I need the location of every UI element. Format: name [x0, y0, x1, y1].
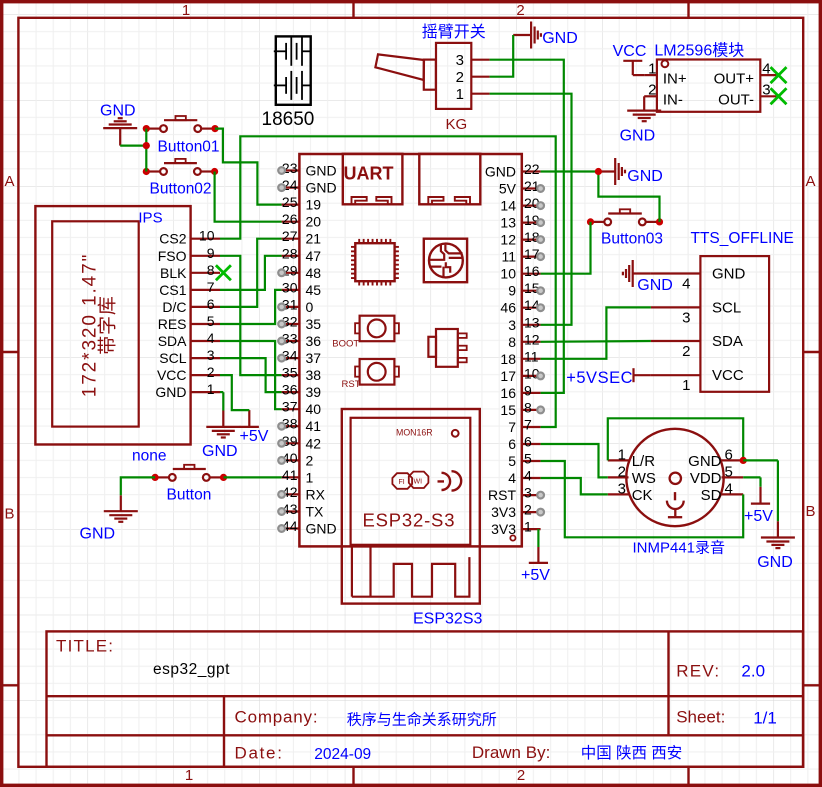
svg-text:8: 8: [524, 399, 532, 415]
svg-text:42: 42: [306, 435, 322, 451]
svg-text:9: 9: [524, 382, 532, 398]
U1 WiFi logo arcs: [438, 473, 451, 490]
svg-text:Company:: Company:: [235, 708, 319, 727]
U1 pin 14 (46) right: [522, 307, 541, 309]
svg-text:1: 1: [182, 2, 190, 19]
U1 pin 25 (19) left: [282, 204, 300, 206]
svg-text:45: 45: [306, 282, 322, 298]
svg-text:OUT-: OUT-: [718, 92, 754, 109]
svg-text:VCC: VCC: [613, 43, 647, 60]
ground symbol below INMP441: [777, 460, 779, 521]
svg-text:SDA: SDA: [158, 333, 187, 349]
svg-text:35: 35: [306, 316, 322, 332]
svg-text:25: 25: [282, 194, 298, 210]
U1 ESP32-S3 sub-module outline: [342, 409, 480, 604]
svg-text:TTS_OFFLINE: TTS_OFFLINE: [691, 230, 794, 247]
svg-text:3: 3: [508, 317, 516, 333]
U1 pin 37 (40) left: [282, 408, 300, 410]
U1 pin 4 (4) right: [522, 477, 541, 479]
U1 pin 20 (14) right: [522, 205, 541, 207]
svg-text:CS1: CS1: [159, 282, 186, 298]
svg-text:IN-: IN-: [663, 92, 683, 109]
IPS pin 9 (FSO): [191, 255, 220, 257]
svg-text:SDA: SDA: [712, 333, 743, 350]
svg-text:1: 1: [682, 377, 690, 394]
svg-text:L/R: L/R: [632, 453, 656, 470]
U1 pin 9 (16) right: [522, 392, 541, 394]
svg-text:1: 1: [648, 61, 656, 78]
wire Button02 to U1 pin26: [215, 172, 282, 222]
svg-text:11: 11: [524, 348, 539, 364]
IPS pin 2 (VCC): [191, 374, 220, 376]
svg-text:D/C: D/C: [162, 299, 186, 315]
U1 pin 17 (11) right: [522, 256, 541, 258]
U1 logo square: [424, 239, 467, 283]
wire IPS CS2 to U1 pin7: [220, 136, 556, 427]
ground symbol at TTS GND pin: [633, 272, 651, 274]
svg-text:46: 46: [500, 300, 516, 316]
IPS pin 1 (GND): [191, 391, 220, 393]
svg-text:6: 6: [725, 446, 733, 463]
U1 WiFi logo FI octagon: [392, 473, 412, 489]
svg-text:6: 6: [207, 296, 215, 312]
svg-text:GND: GND: [202, 443, 238, 460]
ESP32 module U1 body: [299, 154, 521, 546]
svg-text:16: 16: [500, 385, 516, 401]
U1 BOOT button: [360, 316, 395, 342]
svg-text:MON16R: MON16R: [396, 427, 433, 437]
U1 pin 21 (5V) right: [522, 187, 541, 189]
svg-text:3: 3: [682, 309, 690, 326]
svg-text:18650: 18650: [262, 109, 315, 130]
svg-text:GND: GND: [155, 384, 186, 400]
ground symbol at bottom Button: [120, 495, 122, 511]
U1 pin1 indicator circle: [510, 535, 515, 540]
svg-text:VDD: VDD: [690, 470, 722, 487]
U1 pin 40 (2) left: [282, 459, 300, 461]
svg-text:17: 17: [500, 368, 516, 384]
svg-text:7: 7: [508, 419, 516, 435]
U1 pin 16 (10) right: [522, 273, 541, 275]
svg-text:TX: TX: [306, 504, 325, 520]
svg-text:Drawn By:: Drawn By:: [472, 743, 550, 762]
KG pin 1: [471, 93, 489, 95]
svg-text:9: 9: [508, 283, 516, 299]
LM2596 pin 3 OUT-: [760, 95, 776, 97]
U1 pin 1 (3V3) right: [522, 528, 541, 530]
push button Button02: [146, 170, 160, 172]
svg-text:47: 47: [306, 248, 322, 264]
svg-text:5: 5: [508, 453, 516, 469]
svg-text:37: 37: [282, 399, 298, 415]
svg-text:4: 4: [524, 468, 532, 484]
zone tick marks: [352, 2, 354, 18]
INMP441 pin 5 (VDD): [722, 476, 744, 478]
svg-text:3: 3: [524, 485, 532, 501]
svg-text:ESP32S3: ESP32S3: [413, 611, 482, 628]
U1 pin 2 (3V3) right: [522, 511, 541, 513]
wire IPS D/C to U1 pin27: [220, 239, 282, 307]
svg-text:GND: GND: [306, 521, 337, 537]
title block column divider right: [667, 631, 669, 735]
svg-text:VCC: VCC: [157, 367, 187, 383]
svg-text:中国 陕西 西安: 中国 陕西 西安: [581, 744, 683, 762]
svg-text:2024-09: 2024-09: [314, 746, 371, 763]
svg-text:SCL: SCL: [712, 299, 741, 316]
battery BT1 18650: [276, 36, 311, 104]
IPS pin 6 (D/C): [191, 306, 220, 308]
wire U1 pin11 to TTS SCL: [541, 307, 651, 358]
+5VSEC power flag at TTS VCC: [632, 368, 634, 382]
svg-text:FSO: FSO: [158, 248, 187, 264]
U1 pin 15 (9) right: [522, 290, 541, 292]
svg-text:VCC: VCC: [712, 367, 744, 384]
svg-text:36: 36: [306, 333, 322, 349]
no-connect X on OUT+: [771, 67, 787, 83]
+5V power flag at INMP441 VDD: [759, 477, 761, 486]
svg-text:20: 20: [306, 214, 322, 230]
svg-text:4: 4: [682, 276, 690, 293]
svg-text:4: 4: [725, 480, 733, 497]
wire IPS SDA to U1 pin37: [220, 341, 282, 409]
U1 pin 6 (6) right: [522, 443, 541, 445]
U1 pin 28 (47) left: [282, 255, 300, 257]
U1 pin 43 (TX) left: [282, 510, 300, 512]
U1 pin 38 (41) left: [282, 425, 300, 427]
svg-text:TITLE:: TITLE:: [56, 636, 114, 655]
TTS pin 1 (VCC): [651, 374, 701, 376]
title block row divider 2: [47, 734, 804, 736]
U1 WiFi logo WI octagon: [409, 472, 429, 488]
svg-text:21: 21: [306, 231, 322, 247]
U1 RST button: [360, 359, 395, 385]
VCC power flag at LM2596 IN+: [623, 60, 642, 62]
IPS pin 7 (CS1): [191, 289, 220, 291]
svg-text:2: 2: [618, 463, 626, 480]
wire IPS VCC to +5V: [220, 375, 249, 410]
svg-text:2: 2: [207, 364, 215, 380]
svg-text:Sheet:: Sheet:: [676, 708, 725, 727]
title block column divider left: [223, 696, 225, 767]
svg-text:Date:: Date:: [235, 744, 284, 763]
svg-text:Button02: Button02: [150, 181, 212, 198]
svg-text:10: 10: [500, 266, 516, 282]
svg-text:22: 22: [524, 161, 540, 177]
svg-text:A: A: [4, 173, 14, 190]
svg-text:BOOT: BOOT: [332, 338, 359, 349]
svg-text:7: 7: [524, 417, 532, 433]
U1 pin 26 (20) left: [282, 221, 300, 223]
svg-text:GND: GND: [637, 277, 673, 294]
svg-text:36: 36: [282, 382, 298, 398]
wire IPS CS1 to U1 pin28: [220, 256, 282, 290]
svg-text:Button: Button: [167, 487, 212, 504]
wire U1 pin4 to INMP441 CK: [541, 478, 608, 494]
svg-text:CS2: CS2: [159, 231, 186, 247]
INMP441 pin 3 (CK): [608, 493, 629, 495]
title block row divider 1: [47, 695, 804, 697]
U1 pin 23 (GND) left: [282, 169, 300, 171]
wire bottom Button right to U1 pin41: [224, 476, 282, 478]
KG pin 3: [471, 59, 489, 61]
svg-text:38: 38: [306, 367, 322, 383]
svg-text:REV:: REV:: [676, 662, 720, 681]
svg-text:2: 2: [524, 502, 532, 518]
svg-text:6: 6: [508, 436, 516, 452]
KG lever: [375, 54, 424, 80]
svg-text:6: 6: [524, 434, 532, 450]
svg-text:2: 2: [517, 767, 525, 784]
IPS pin 3 (SCL): [191, 357, 220, 359]
svg-text:4: 4: [762, 61, 770, 78]
svg-text:LM2596模块: LM2596模块: [654, 41, 744, 59]
wire bottom Button left to ground: [121, 477, 155, 495]
svg-text:11: 11: [501, 249, 516, 265]
ground symbol right of KG switch: [513, 34, 531, 36]
svg-text:4: 4: [508, 470, 516, 486]
LM2596 pin1 indicator circle: [662, 60, 669, 67]
U1 pin 33 (36) left: [282, 340, 300, 342]
svg-text:A: A: [805, 173, 815, 190]
svg-text:2: 2: [648, 82, 656, 99]
svg-text:GND: GND: [306, 163, 337, 179]
svg-text:41: 41: [306, 418, 322, 434]
+5V power flag at ESP32 pin1: [537, 529, 539, 547]
svg-text:+5V: +5V: [240, 428, 269, 445]
svg-text:2: 2: [682, 343, 690, 360]
U1 pin 41 (1) left: [282, 476, 300, 478]
TTS pin 4 (GND): [651, 272, 701, 274]
svg-text:2.0: 2.0: [741, 662, 765, 681]
U1 QFN chip drawing: [355, 243, 394, 281]
svg-text:37: 37: [306, 350, 322, 366]
svg-text:+5VSEC: +5VSEC: [566, 369, 633, 387]
wire INMP441 GND to ground symbol: [743, 459, 778, 461]
svg-text:esp32_gpt: esp32_gpt: [153, 661, 230, 678]
U1 pin 10 (17) right: [522, 375, 541, 377]
svg-text:10: 10: [199, 228, 215, 244]
svg-text:B: B: [4, 506, 14, 523]
svg-text:CK: CK: [632, 487, 653, 504]
svg-text:RST: RST: [488, 487, 516, 503]
U1 pin 32 (35) left: [282, 323, 300, 325]
svg-text:16: 16: [524, 263, 540, 279]
U1 pin 34 (37) left: [282, 357, 300, 359]
LM2596 pin 1 IN+: [644, 74, 657, 76]
svg-text:8: 8: [508, 334, 516, 350]
U1 pin 19 (13) right: [522, 222, 541, 224]
U1 UART connector J1: [343, 154, 403, 205]
U1 pin 35 (38) left: [282, 374, 300, 376]
U1 SOT-23 part: [436, 329, 458, 367]
svg-text:BLK: BLK: [160, 265, 187, 281]
U1 pin 13 (3) right: [522, 324, 541, 326]
U1 pin 7 (7) right: [522, 426, 541, 428]
svg-text:26: 26: [282, 211, 298, 227]
svg-text:GND: GND: [100, 102, 136, 119]
svg-text:OUT+: OUT+: [714, 71, 755, 88]
INMP441 microphone body circle: [626, 429, 723, 526]
U1 pin 27 (21) left: [282, 238, 300, 240]
TTS pin 2 (SDA): [651, 340, 701, 342]
svg-text:1: 1: [185, 767, 193, 784]
svg-text:FI: FI: [399, 479, 405, 486]
wire IPS FSO to U1 pin35: [220, 256, 282, 375]
svg-text:GND: GND: [688, 453, 722, 470]
svg-text:Button01: Button01: [158, 139, 220, 156]
push button Button01: [146, 128, 160, 130]
svg-text:12: 12: [524, 331, 540, 347]
U1 pin 42 (RX) left: [282, 493, 300, 495]
IPS display module body: [35, 206, 190, 444]
svg-text:GND: GND: [80, 526, 116, 543]
U1 pin 12 (8) right: [522, 341, 541, 343]
U1 pin 44 (GND) left: [282, 527, 300, 529]
svg-text:7: 7: [207, 279, 215, 295]
svg-text:3: 3: [762, 82, 770, 99]
wire INMP441 VDD to +5V: [743, 476, 760, 478]
svg-text:8: 8: [207, 262, 215, 278]
wire IPS RES to U1 pin30: [220, 290, 282, 324]
INMP441 pin 6 (GND): [722, 459, 744, 461]
svg-text:GND: GND: [542, 30, 578, 47]
svg-text:1: 1: [618, 446, 626, 463]
U1 pin 3 (RST) right: [522, 494, 541, 496]
svg-text:GND: GND: [627, 168, 663, 185]
svg-text:秩序与生命关系研究所: 秩序与生命关系研究所: [347, 711, 497, 729]
svg-text:INMP441录音: INMP441录音: [633, 540, 726, 557]
svg-text:40: 40: [306, 401, 322, 417]
svg-text:RST: RST: [342, 379, 361, 390]
U1 pin 11 (18) right: [522, 358, 541, 360]
IPS pin 8 (BLK): [191, 272, 220, 274]
svg-text:带字库: 带字库: [97, 295, 119, 354]
svg-text:Button03: Button03: [601, 231, 663, 248]
wire GND to Button01/02 left: [120, 145, 146, 147]
push button Button: [155, 476, 169, 478]
svg-text:2: 2: [456, 69, 464, 86]
svg-text:+5V: +5V: [744, 508, 773, 525]
wire KG pin3 to U1 pin9: [490, 60, 564, 393]
U1 pin 31 (0) left: [282, 306, 300, 308]
INMP441 pin 4 (SD): [722, 493, 744, 495]
svg-text:GND: GND: [485, 164, 516, 180]
U1 pin 24 (GND) left: [282, 187, 300, 189]
svg-text:41: 41: [282, 467, 298, 483]
svg-text:12: 12: [500, 232, 516, 248]
svg-text:SCL: SCL: [159, 350, 186, 366]
U1 pin 18 (12) right: [522, 239, 541, 241]
wire KG pin1 to U1 pin13: [490, 94, 572, 325]
push button Button03: [591, 221, 605, 223]
U1 sub-module pin1 circle: [452, 430, 459, 437]
U1 pin 8 (15) right: [522, 409, 541, 411]
svg-text:RX: RX: [306, 486, 326, 502]
svg-text:18: 18: [500, 351, 516, 367]
IPS pin 5 (RES): [191, 323, 220, 325]
wire U1 pin12 to TTS SDA: [541, 340, 651, 343]
IPS pin 4 (SDA): [191, 340, 220, 342]
U1 pin 39 (42) left: [282, 442, 300, 444]
svg-text:B: B: [805, 503, 815, 520]
svg-text:19: 19: [306, 197, 322, 213]
+5V power flag below IPS VCC: [248, 410, 250, 427]
svg-text:+5V: +5V: [521, 567, 550, 584]
wire INMP441 L/R to GND loop: [608, 418, 743, 460]
wire Button01 to U1 pin25: [215, 129, 282, 205]
svg-text:GND: GND: [757, 554, 793, 571]
U1 pin 30 (45) left: [282, 289, 300, 291]
svg-text:30: 30: [282, 279, 298, 295]
KG pin 2: [471, 76, 489, 78]
svg-text:IN+: IN+: [663, 71, 687, 88]
svg-text:none: none: [132, 448, 166, 465]
U1 pin 36 (39) left: [282, 391, 300, 393]
INMP441 pin 1 (L/R): [608, 459, 629, 461]
svg-text:WS: WS: [632, 470, 656, 487]
svg-text:GND: GND: [306, 180, 337, 196]
ground symbol under LM2596 IN-: [643, 96, 645, 110]
svg-text:14: 14: [500, 198, 516, 214]
svg-text:5: 5: [725, 463, 733, 480]
wire U1 pin22 to ground and Button03: [541, 170, 599, 172]
title block outline: [47, 631, 804, 766]
svg-text:4: 4: [207, 330, 215, 346]
svg-text:35: 35: [282, 365, 298, 381]
ground symbol top-left near Button01: [119, 128, 121, 146]
svg-text:GND: GND: [712, 266, 746, 283]
INMP441 pin 2 (WS): [608, 476, 629, 478]
TTS pin 3 (SCL): [651, 306, 701, 308]
svg-text:RES: RES: [158, 316, 187, 332]
LM2596 pin 4 OUT+: [760, 74, 776, 76]
svg-text:WI: WI: [414, 479, 423, 486]
svg-text:5V: 5V: [499, 181, 517, 197]
ground symbol below IPS GND pin: [222, 392, 224, 410]
ground symbol at ESP32 pin22: [598, 170, 615, 172]
svg-text:48: 48: [306, 265, 322, 281]
U1 pin 22 (GND) right: [522, 170, 541, 172]
svg-text:3: 3: [618, 480, 626, 497]
svg-text:15: 15: [500, 402, 516, 418]
svg-text:13: 13: [524, 314, 540, 330]
IPS pin 10 (CS2): [191, 238, 220, 240]
no-connect X on OUT-: [771, 88, 787, 104]
svg-text:3: 3: [207, 347, 215, 363]
wire U1 pin5 to INMP441 SD: [541, 461, 744, 537]
svg-text:1: 1: [306, 469, 314, 485]
INMP441 mic symbol: [670, 473, 681, 484]
svg-text:3: 3: [456, 52, 464, 69]
LM2596 pin 2 IN-: [644, 95, 657, 97]
LM2596 module body: [657, 60, 760, 112]
svg-text:1/1: 1/1: [753, 709, 777, 728]
wire U1 pin6 to INMP441 WS: [541, 444, 608, 477]
svg-text:SD: SD: [701, 487, 722, 504]
svg-text:13: 13: [500, 215, 516, 231]
svg-text:2: 2: [306, 452, 314, 468]
svg-text:3V3: 3V3: [491, 504, 516, 520]
U1 pin 29 (48) left: [282, 272, 300, 274]
svg-text:1: 1: [456, 86, 464, 103]
U1 USB connector J2: [419, 154, 480, 205]
svg-text:UART: UART: [344, 163, 394, 183]
svg-text:ESP32-S3: ESP32-S3: [363, 509, 456, 530]
U1 antenna meander: [351, 546, 353, 596]
svg-text:0: 0: [306, 299, 314, 315]
wire KG pin2 to ground: [490, 35, 514, 77]
U1 pin 5 (5) right: [522, 460, 541, 462]
